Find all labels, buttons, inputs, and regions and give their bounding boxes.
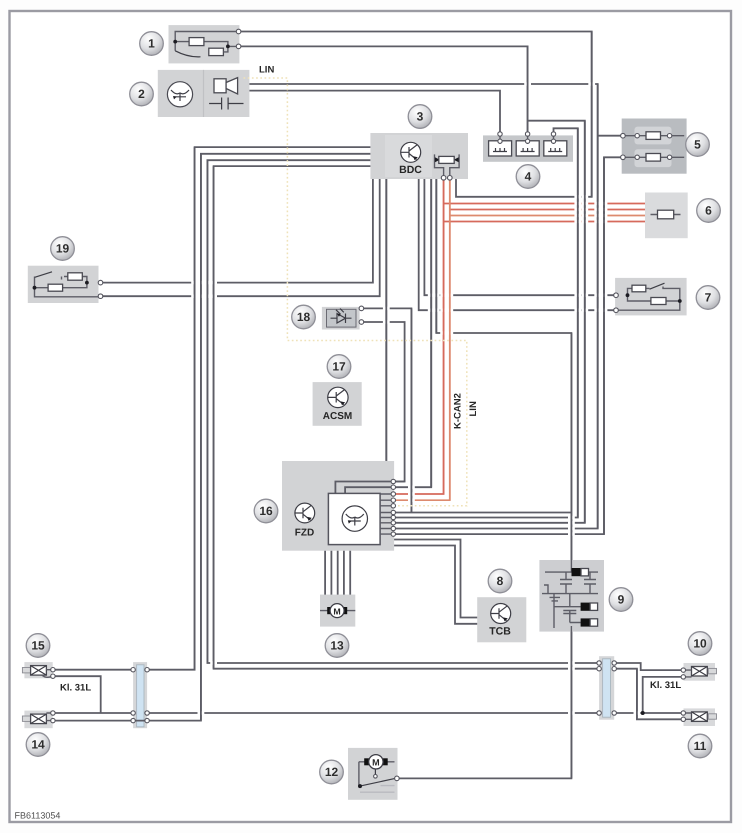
svg-text:12: 12 [325,765,339,779]
badge 2 [130,82,154,106]
fuse connector box 4 [483,135,573,161]
svg-text:1: 1 [148,37,155,51]
BDC internals: transistor icon, resistor with arrows [385,135,459,179]
svg-text:13: 13 [330,639,344,653]
TCB box 8 [477,597,526,642]
box12 internals: motor M and switch [358,755,395,793]
wire box1 bottom to box4 pin2 [238,46,527,133]
badge 15 [26,634,50,658]
wire splice2 bottom to bulb11 pin1 [614,712,683,714]
wire bulb15 pin1 to splice [53,669,133,671]
badge 6 [697,199,721,223]
badge 9 [609,588,633,612]
badge 16 [254,499,278,523]
wire FZD row2 to BDC [345,179,431,494]
junction dots box1 [173,40,177,44]
badge 13 [325,634,349,658]
svg-text:M: M [372,758,380,768]
bulb 14 box [24,711,52,729]
wire FZD to TCB lower [394,546,477,624]
svg-text:8: 8 [497,574,504,588]
body domain controller BDC box 3 [370,133,468,179]
BDC suppression resistor [435,154,460,179]
badge 1 [140,32,164,56]
box6 internals: resistor [651,210,681,219]
K-CAN2 orange wire from BDC to FZD row4 [394,179,450,500]
bulb15 internals [22,666,52,678]
control unit box 2 [158,70,250,117]
box13 internals: motor M [320,604,355,618]
wire BDC left 1 to splice left top [147,147,370,670]
wire FZD row6 to box9 riser [394,512,571,514]
bulb 15 box [24,662,52,678]
wire box18 top pin to FZD row6 junction [361,308,411,512]
wire FZD row1 inner step [335,482,404,495]
TCB internals: transistor icon [489,604,511,638]
wire BDC left 2 to bulb14 lower pin [53,154,371,721]
svg-text:FZD: FZD [295,528,314,539]
badge 11 [688,734,712,758]
resistor box1 upper [189,38,204,46]
svg-text:FB6113054: FB6113054 [15,811,61,821]
switch blade box1 [175,51,200,57]
wire bulb10 pin2 down to Kl31L node [643,677,684,713]
svg-text:LIN: LIN [259,65,274,76]
ACSM internals: transistor icon [323,387,352,422]
wire box18 bottom pin to FZD row1 [361,322,405,482]
resistor box1 lower [209,48,224,55]
badge 8 [488,569,512,593]
svg-text:18: 18 [297,310,311,324]
vertical wire redraws over gaps [195,32,637,779]
wire splice2 to bulb10 pin1 [614,663,683,670]
K-CAN2 red wire from BDC to FZD row3 [394,179,444,494]
svg-text:LIN: LIN [468,401,479,416]
svg-text:4: 4 [525,170,532,184]
bulb14 internals [22,713,52,724]
badge 10 [688,632,712,656]
badge 7 [696,286,720,310]
wire BDC to box9 top [436,179,571,560]
box4 internals: three connector cells [489,134,567,156]
svg-text:7: 7 [705,291,712,305]
wiper motor box 12 [348,748,398,800]
wire BDC to box7 pin1 [424,179,616,295]
CAN branch 3 to box6 [450,215,645,217]
FZD pin stubs [380,494,394,534]
power module box 9 [539,560,604,632]
badge 18 [292,305,316,329]
FZD box 16 [282,461,394,551]
box7 internals: resistors and switch [617,283,682,310]
wire BDC to FZD top [385,179,387,461]
svg-text:3: 3 [417,110,424,124]
bulb 11 box [684,708,716,726]
switch unit box 1 [169,25,240,63]
capacitor box2 [209,98,243,110]
CAN branch 1 to box6 [444,203,645,205]
badge 4 [516,165,540,189]
CAN branch 2 to box6 [450,209,645,211]
splice connector right [599,656,614,720]
wire box2 top to box5 and FZD row9 [249,84,597,529]
switch unit box 7 [615,278,687,316]
speaker box2 [214,79,226,93]
svg-text:2: 2 [138,87,145,101]
svg-text:M: M [333,606,340,616]
box5 internals: two fuses [623,127,684,168]
pin circles [51,29,686,781]
LIN dotted bus from box2 to FZD row5 [244,78,467,506]
wire branch box4pin2 to FZD row8 [394,121,585,523]
svg-text:Kl. 31L: Kl. 31L [60,683,91,694]
wire box19 bottom to BDC [99,179,380,296]
badge 12 [320,760,344,784]
LED unit box 18 [322,307,360,330]
wire FZD to TCB upper [394,540,477,618]
ACSM box 17 [313,382,362,426]
junction dot Kl31L right [641,711,645,715]
wire box5 lower pin to FZD row10 [394,157,623,534]
motor box 13 [320,595,355,627]
svg-text:19: 19 [56,242,70,256]
svg-text:11: 11 [694,739,707,753]
wire splice2 row2 to bulb11 pin2 [614,669,683,720]
svg-text:K-CAN2: K-CAN2 [453,393,464,429]
wire splice left bottom row to splice right [147,712,599,714]
svg-text:14: 14 [31,738,45,752]
wire bulb14 pin1 to splice [53,712,133,714]
box9 internals: diodes and capacitors [542,560,598,632]
CAN branch 4 to box6 [444,221,645,223]
wires FZD to motor13 [325,551,350,595]
splice connector left [133,662,147,728]
svg-text:9: 9 [618,593,625,607]
wire bulb15 pin2 Kl31L drop [53,676,101,713]
svg-text:15: 15 [31,639,45,653]
badge 17 [327,355,351,379]
terminating resistor box 6 [645,193,688,239]
svg-text:16: 16 [259,504,273,518]
wire box19 top to BDC [99,179,373,283]
wire box9 bottom to motor12 [398,632,572,779]
badge 3 [408,105,432,129]
svg-text:TCB: TCB [489,626,511,638]
box2 internals: transistor icon, speaker, capacitor [167,78,243,110]
badge 5 [686,133,710,157]
svg-text:ACSM: ACSM [323,411,352,422]
svg-text:10: 10 [693,637,707,651]
wire box2 bottom to box4 pin1 [249,91,500,134]
wire box1 top to BDC via right side [238,32,592,197]
switch unit box 19 [28,266,99,303]
svg-text:5: 5 [694,138,701,152]
box1 internals: resistors R and switch [173,32,238,57]
bulb 10 box [684,663,716,681]
bulb10 internals [684,667,717,677]
FZD internals [295,493,394,544]
box18 internals: LED symbol [327,309,357,328]
wire box4 pin3 to FZD row7 [394,128,578,517]
wire BDC left 4 to splice right row2 [214,166,599,669]
svg-text:Kl. 31L: Kl. 31L [650,680,681,691]
box19 internals: resistors and switch [33,272,98,297]
svg-text:17: 17 [332,360,346,374]
wire BDC to box7 pin2 [419,179,617,310]
svg-text:6: 6 [705,204,712,218]
FZD inner module box [328,493,380,544]
badge 19 [51,237,75,261]
wire box5 upper pin branch [598,135,623,137]
bulb11 internals [684,712,717,722]
svg-text:BDC: BDC [399,164,422,176]
badge 14 [26,733,50,757]
fuse box 5 [622,119,687,174]
wire hop gaps [191,82,640,714]
wire BDC left 3 to splice right row1 [207,160,599,663]
